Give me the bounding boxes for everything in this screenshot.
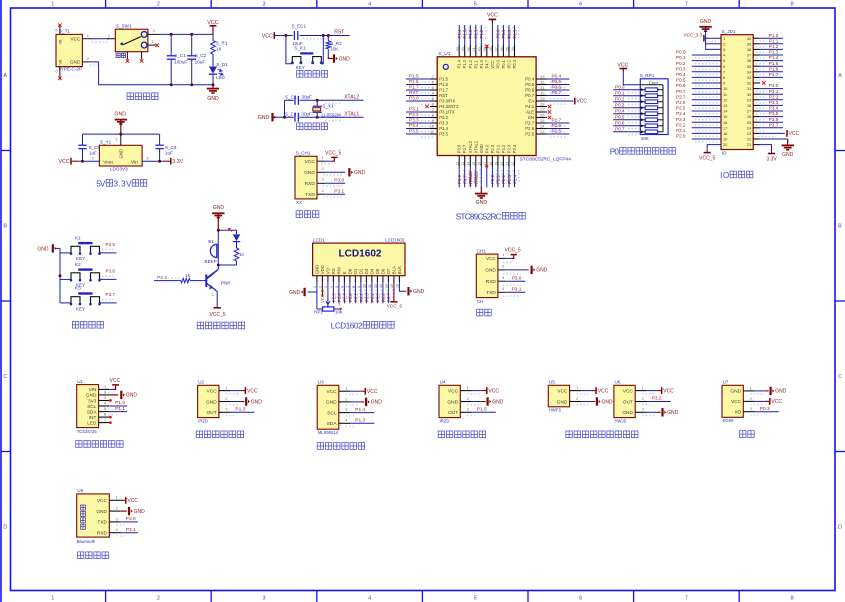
pin U1 bottom 22 (P2.4) bbox=[511, 156, 519, 188]
svg-text:IRZD: IRZD bbox=[198, 418, 208, 423]
svg-text:P3.6: P3.6 bbox=[457, 174, 462, 184]
svg-text:6: 6 bbox=[55, 70, 57, 74]
svg-text:37: 37 bbox=[494, 47, 498, 51]
pin CH1-2 GND serial bbox=[498, 264, 548, 274]
svg-text:D5: D5 bbox=[375, 268, 380, 274]
svg-text:IO: IO bbox=[722, 151, 727, 156]
svg-text:S_EC1: S_EC1 bbox=[292, 24, 307, 29]
caption IRZD module bbox=[438, 431, 485, 438]
svg-text:5V: 5V bbox=[96, 180, 106, 189]
pin U1 right 30 (P0.7) bbox=[536, 90, 569, 99]
caption key circuit bbox=[72, 321, 103, 328]
pin JD1-34 wire P1.6 bbox=[753, 66, 783, 74]
svg-text:3: 3 bbox=[338, 302, 340, 306]
svg-text:P3.3: P3.3 bbox=[439, 121, 448, 126]
svg-text:27: 27 bbox=[747, 109, 751, 114]
svg-text:6: 6 bbox=[579, 2, 582, 8]
caption download port bbox=[296, 211, 319, 218]
pin U1 right 24 (P2.6) bbox=[536, 123, 569, 132]
key S_K1 KEY bbox=[291, 46, 322, 70]
svg-text:1: 1 bbox=[51, 596, 54, 602]
svg-text:P3.4: P3.4 bbox=[409, 123, 419, 128]
pin CH1-1 VCC_5 serial bbox=[498, 248, 521, 263]
pin LCD 14 (D7) bbox=[385, 276, 393, 304]
svg-text:P0.1: P0.1 bbox=[353, 293, 358, 302]
caption crystal circuit bbox=[297, 123, 328, 130]
capacitor S_EC1 10uF (series) bbox=[292, 24, 307, 46]
power port VCC bbox=[207, 20, 218, 34]
svg-text:GND: GND bbox=[602, 399, 614, 405]
svg-text:P3.5: P3.5 bbox=[106, 242, 116, 247]
pin U1 top 36 (P0.1) bbox=[500, 25, 508, 57]
pin U1 left 4 (RST) bbox=[406, 90, 437, 99]
svg-text:GND: GND bbox=[413, 289, 425, 295]
pin U1 left 2 (P1.6) bbox=[406, 79, 437, 88]
svg-text:P2.4: P2.4 bbox=[512, 144, 517, 153]
svg-text:P3.1: P3.1 bbox=[334, 188, 344, 194]
svg-text:P1.2: P1.2 bbox=[468, 59, 473, 68]
svg-text:S_X1: S_X1 bbox=[322, 104, 334, 109]
pin U1 bottom 20 (P2.2) bbox=[500, 156, 508, 188]
pin S_T1 shield bottom (no-connect) bbox=[55, 67, 61, 81]
pin U1-1 VIN bbox=[99, 378, 121, 393]
svg-text:41: 41 bbox=[472, 47, 476, 51]
pin CH1-4 wire P3.1 bbox=[317, 188, 345, 197]
svg-text:32: 32 bbox=[747, 81, 751, 86]
svg-text:GND: GND bbox=[213, 205, 225, 211]
svg-text:P1.3: P1.3 bbox=[462, 59, 467, 68]
svg-text:14: 14 bbox=[467, 162, 471, 166]
svg-text:P0.7: P0.7 bbox=[552, 90, 562, 95]
svg-text:P4.0: P4.0 bbox=[484, 144, 489, 153]
pin U2-1 VCC bbox=[219, 385, 258, 394]
svg-text:P1.1: P1.1 bbox=[115, 406, 125, 412]
svg-text:P1.3: P1.3 bbox=[355, 418, 365, 424]
svg-text:P0.0: P0.0 bbox=[676, 50, 686, 55]
svg-text:28: 28 bbox=[540, 102, 544, 106]
svg-text:6: 6 bbox=[579, 596, 582, 602]
svg-text:D7: D7 bbox=[386, 268, 391, 274]
svg-text:12: 12 bbox=[456, 162, 460, 166]
svg-text:VCC: VCC bbox=[262, 33, 273, 39]
power port VCC on top of MCU bbox=[487, 13, 498, 23]
svg-text:GND: GND bbox=[315, 265, 320, 275]
svg-text:XTAL1: XTAL1 bbox=[473, 140, 478, 153]
pin LCD 15 (BLA) bbox=[390, 276, 394, 302]
pin LCD 12 (D5) bbox=[374, 276, 382, 304]
svg-text:P0.7: P0.7 bbox=[386, 293, 391, 302]
svg-text:GND: GND bbox=[354, 170, 366, 176]
caption reset circuit bbox=[297, 71, 328, 78]
svg-text:S_U1: S_U1 bbox=[438, 51, 450, 57]
LCD1602 display block LCD1 bbox=[313, 237, 405, 275]
potentiometer RP1 10K bbox=[314, 301, 343, 314]
svg-text:GND: GND bbox=[479, 144, 484, 153]
svg-text:30pF: 30pF bbox=[301, 94, 312, 99]
power port VCC into Vout bbox=[59, 158, 78, 165]
caption LCD1602 display module bbox=[331, 322, 394, 331]
svg-text:2: 2 bbox=[723, 41, 725, 46]
svg-text:TXD: TXD bbox=[486, 290, 496, 296]
svg-text:P3.2: P3.2 bbox=[652, 396, 662, 402]
svg-text:6: 6 bbox=[55, 29, 57, 33]
svg-text:I/O: I/O bbox=[735, 410, 742, 416]
svg-text:35: 35 bbox=[747, 64, 751, 69]
pin U1-7 LED bbox=[99, 417, 112, 424]
svg-text:K2: K2 bbox=[75, 262, 81, 267]
svg-text:GND: GND bbox=[476, 200, 488, 206]
svg-text:GND: GND bbox=[304, 170, 315, 176]
svg-text:P1.3: P1.3 bbox=[769, 50, 779, 55]
svg-text:P2.5: P2.5 bbox=[331, 293, 336, 302]
capacitor S_C5 1uF bbox=[78, 134, 100, 161]
svg-text:10K: 10K bbox=[330, 46, 339, 51]
svg-text:P0.5: P0.5 bbox=[676, 78, 686, 83]
svg-text:11.0592M: 11.0592M bbox=[321, 113, 341, 118]
svg-text:18: 18 bbox=[723, 131, 727, 136]
resistor RP1 element 6 with P0.5 wire bbox=[613, 114, 663, 122]
module U2 (IRZD) body bbox=[198, 380, 219, 424]
svg-text:23: 23 bbox=[540, 130, 544, 134]
capacitor S_C3 30pF bbox=[285, 94, 312, 104]
wire crystal top XTAL2 bbox=[285, 99, 364, 102]
svg-text:7: 7 bbox=[432, 108, 434, 112]
svg-text:VDD: VDD bbox=[320, 265, 325, 274]
svg-text:3: 3 bbox=[432, 86, 434, 90]
svg-text:P2.7: P2.7 bbox=[676, 94, 686, 99]
power port VCC at EA pin bbox=[575, 98, 588, 105]
svg-text:LCD1: LCD1 bbox=[313, 237, 325, 242]
svg-text:P0.1: P0.1 bbox=[501, 29, 506, 39]
svg-text:S_C2: S_C2 bbox=[195, 53, 207, 58]
svg-text:P4.3/INT2: P4.3/INT2 bbox=[439, 104, 459, 109]
svg-text:P1.0: P1.0 bbox=[115, 400, 125, 406]
pin U1 left 11 (P3.5) bbox=[406, 128, 437, 137]
pin U8-1 VCC bbox=[109, 495, 138, 504]
svg-text:10K: 10K bbox=[335, 310, 343, 315]
pin JD1-37 wire P1.3 bbox=[753, 50, 783, 58]
svg-text:P0.6: P0.6 bbox=[615, 120, 625, 125]
svg-text:K3: K3 bbox=[75, 286, 81, 291]
wire VCC to Com pin of RP1 bbox=[623, 72, 640, 85]
svg-text:4: 4 bbox=[368, 2, 371, 8]
svg-text:P3.2: P3.2 bbox=[439, 115, 448, 120]
pin LDO GND up bbox=[115, 134, 121, 145]
wire crystal bottom XTAL1 bbox=[273, 116, 364, 119]
svg-text:KEY: KEY bbox=[76, 306, 85, 311]
svg-text:P3.0: P3.0 bbox=[409, 95, 419, 100]
svg-text:P2.5: P2.5 bbox=[525, 132, 534, 137]
svg-text:P2.4: P2.4 bbox=[512, 174, 517, 184]
svg-text:VB: VB bbox=[59, 59, 63, 65]
wire VCC to Vout pin bbox=[78, 155, 99, 162]
caption MLX90614 module bbox=[317, 443, 364, 450]
svg-text:RXD: RXD bbox=[486, 279, 497, 285]
buzzer B1 BEEP bbox=[205, 239, 217, 264]
svg-text:P2.1: P2.1 bbox=[496, 174, 501, 184]
svg-text:P1.0: P1.0 bbox=[479, 29, 484, 39]
svg-text:X2: X2 bbox=[296, 200, 302, 205]
resistor 1K at base bbox=[154, 273, 206, 283]
power port VCC_5 at LCD BLA bbox=[387, 302, 403, 310]
pin JD1-25 wire P3.6 bbox=[753, 117, 783, 125]
svg-text:P3.1: P3.1 bbox=[409, 106, 419, 111]
svg-text:19: 19 bbox=[494, 162, 498, 166]
svg-text:P3.1: P3.1 bbox=[126, 527, 136, 533]
pin JD1-39 wire P1.1 bbox=[753, 38, 783, 46]
pin JD1-11 wire P0.7 bbox=[676, 89, 721, 97]
svg-text:29: 29 bbox=[747, 97, 751, 102]
svg-text:P1.2: P1.2 bbox=[769, 44, 779, 49]
svg-text:23: 23 bbox=[747, 131, 751, 136]
resistor RP1 element 8 with P0.7 wire bbox=[613, 126, 663, 134]
svg-text:P0.4: P0.4 bbox=[552, 73, 562, 78]
pin U1 bottom 13 (P3.7) bbox=[461, 156, 469, 188]
svg-text:33: 33 bbox=[747, 75, 751, 80]
svg-text:P3.5: P3.5 bbox=[439, 132, 448, 137]
pin SW1-1 (no-connect) bbox=[148, 39, 159, 47]
svg-text:30: 30 bbox=[540, 91, 544, 95]
caption STC89C52RC main chip bbox=[456, 212, 526, 221]
pin JD1-40 wire P1.0 bbox=[753, 33, 783, 41]
svg-text:SG90: SG90 bbox=[723, 418, 734, 423]
svg-text:31: 31 bbox=[540, 86, 544, 90]
svg-text:44: 44 bbox=[456, 47, 460, 51]
pin LCD 9 (D2) bbox=[357, 276, 365, 304]
svg-text:D3: D3 bbox=[364, 268, 369, 274]
svg-text:TXD: TXD bbox=[97, 520, 107, 526]
power ground GND crystal bbox=[258, 113, 276, 121]
pin SW1 bottom pads (no-connect) bbox=[126, 52, 144, 63]
svg-text:B1: B1 bbox=[208, 239, 214, 244]
svg-text:26: 26 bbox=[747, 114, 751, 119]
svg-text:LCD1602: LCD1602 bbox=[339, 248, 383, 259]
svg-text:6: 6 bbox=[432, 102, 434, 106]
svg-text:GND: GND bbox=[37, 246, 49, 252]
svg-text:D: D bbox=[3, 525, 7, 531]
svg-text:3V3: 3V3 bbox=[88, 398, 97, 403]
svg-text:P3.7: P3.7 bbox=[106, 292, 116, 297]
svg-text:S_CH1: S_CH1 bbox=[296, 150, 311, 155]
caption dianyuan-dianlu power circuit bbox=[127, 93, 158, 100]
pin U1 top 38 (VCC) bbox=[489, 23, 493, 57]
svg-text:P1.1: P1.1 bbox=[473, 59, 478, 68]
svg-text:5: 5 bbox=[474, 2, 477, 8]
wire key trunk bbox=[55, 248, 62, 303]
module U8 Bluetooth body bbox=[77, 488, 110, 544]
svg-text:P1.5: P1.5 bbox=[769, 61, 779, 66]
pin JD1-19 wire P2.0 bbox=[676, 134, 721, 142]
svg-text:P3.3: P3.3 bbox=[769, 100, 779, 105]
module U6 (HWJS) body bbox=[614, 380, 635, 424]
module U5 (HWFS) body bbox=[548, 380, 569, 413]
svg-text:P0.5: P0.5 bbox=[525, 82, 534, 87]
pin U7-3 I/O bbox=[743, 406, 779, 415]
svg-text:GND: GND bbox=[206, 399, 217, 405]
module U4 (IRZD) body bbox=[439, 380, 460, 424]
svg-text:LCD1602: LCD1602 bbox=[385, 237, 405, 242]
svg-text:P1.0: P1.0 bbox=[769, 33, 779, 38]
svg-text:XTAL2: XTAL2 bbox=[468, 140, 473, 153]
svg-text:P2.5: P2.5 bbox=[552, 128, 562, 133]
svg-text:VCC_5: VCC_5 bbox=[699, 156, 715, 162]
svg-text:P0.0: P0.0 bbox=[495, 59, 500, 68]
svg-text:1K: 1K bbox=[239, 252, 244, 257]
svg-text:P0.3: P0.3 bbox=[760, 406, 770, 412]
svg-text:27: 27 bbox=[540, 108, 544, 112]
svg-text:P0.4: P0.4 bbox=[676, 72, 686, 77]
svg-text:P1.4: P1.4 bbox=[355, 407, 365, 413]
svg-text:30pF: 30pF bbox=[301, 111, 312, 116]
power port VCC_5 alarm bbox=[209, 308, 225, 318]
svg-text:P3.1/TX: P3.1/TX bbox=[439, 110, 455, 115]
svg-text:7: 7 bbox=[685, 596, 688, 602]
svg-text:OUT: OUT bbox=[623, 399, 633, 405]
pin U1 right 28 (P4.1) bbox=[536, 102, 551, 108]
svg-text:C: C bbox=[838, 374, 842, 380]
pin JD1-4 wire P0.0 bbox=[676, 50, 721, 58]
pin U1 left 5 (P3.0/RX) bbox=[406, 95, 437, 104]
pin LCD 4 (RS) bbox=[330, 276, 338, 304]
svg-text:GND: GND bbox=[126, 393, 137, 399]
svg-text:BLK: BLK bbox=[397, 266, 402, 274]
svg-text:IRZD: IRZD bbox=[440, 418, 450, 423]
resistor S_R2 10K bbox=[326, 36, 342, 57]
svg-text:GND: GND bbox=[667, 410, 679, 416]
MCU left pin names bbox=[439, 77, 459, 137]
svg-text:P0.4: P0.4 bbox=[525, 77, 534, 82]
svg-text:XTAL2: XTAL2 bbox=[468, 172, 473, 186]
wire right branch to key bbox=[321, 36, 323, 64]
svg-text:XTAL1: XTAL1 bbox=[474, 172, 479, 186]
svg-text:4: 4 bbox=[432, 91, 434, 95]
svg-text:RW: RW bbox=[337, 266, 342, 274]
svg-text:3: 3 bbox=[723, 47, 725, 52]
pin U1 right 29 (EA) bbox=[536, 97, 574, 104]
svg-text:P2.4: P2.4 bbox=[676, 111, 686, 116]
svg-text:P1.2: P1.2 bbox=[235, 407, 245, 413]
pin JD1-15 wire P2.4 bbox=[676, 111, 721, 119]
wire top rail of LDO circuit bbox=[83, 133, 160, 136]
svg-text:LCD1602: LCD1602 bbox=[331, 322, 363, 331]
pin U5-1 VCC bbox=[570, 385, 609, 394]
svg-text:P2.6: P2.6 bbox=[676, 100, 686, 105]
svg-text:P1.6: P1.6 bbox=[439, 82, 448, 87]
capacitor S_C6 1uF bbox=[155, 134, 176, 161]
power port VCC right of JD1 bbox=[787, 130, 800, 137]
svg-text:7: 7 bbox=[685, 2, 688, 8]
svg-text:D6: D6 bbox=[381, 268, 386, 274]
wire alarm top node bbox=[217, 229, 237, 265]
wire VCC top rail bbox=[158, 33, 213, 36]
svg-text:P3.0: P3.0 bbox=[334, 177, 344, 183]
pin U1 left 1 (P1.5) bbox=[406, 73, 437, 82]
svg-text:VCC: VCC bbox=[247, 388, 258, 394]
svg-text:U4: U4 bbox=[440, 380, 446, 385]
svg-text:STC89C52RC_LQFP44: STC89C52RC_LQFP44 bbox=[520, 157, 572, 163]
svg-text:43: 43 bbox=[461, 47, 465, 51]
svg-text:7: 7 bbox=[723, 69, 725, 74]
pin U1 top 39 (P4.7) bbox=[483, 45, 488, 57]
svg-text:RST: RST bbox=[439, 93, 448, 98]
svg-text:P3.6: P3.6 bbox=[457, 144, 462, 153]
svg-text:VCC: VCC bbox=[448, 388, 459, 394]
svg-text:1: 1 bbox=[432, 75, 434, 79]
svg-text:GND: GND bbox=[775, 389, 787, 395]
pin JD1-22 wire to GND bbox=[753, 138, 788, 140]
pin JD1-27 wire P3.4 bbox=[753, 106, 783, 114]
svg-text:25: 25 bbox=[540, 119, 544, 123]
svg-text:P0.7: P0.7 bbox=[676, 89, 686, 94]
svg-text:1uF: 1uF bbox=[165, 151, 173, 156]
pin LCD 1 (GND) bbox=[313, 276, 317, 309]
svg-text:13: 13 bbox=[461, 162, 465, 166]
power ground GND alarm bbox=[212, 205, 224, 230]
svg-text:RST: RST bbox=[334, 30, 344, 36]
svg-text:VCC_5: VCC_5 bbox=[325, 150, 341, 156]
svg-text:S_JD1: S_JD1 bbox=[722, 29, 736, 34]
pin U8-4 RXD bbox=[109, 527, 138, 536]
pin U7-1 GND bbox=[743, 385, 786, 395]
caption SG90 module bbox=[740, 431, 755, 438]
svg-text:D1: D1 bbox=[353, 268, 358, 274]
svg-text:1K: 1K bbox=[185, 273, 192, 278]
svg-text:P2.3: P2.3 bbox=[676, 117, 686, 122]
svg-text:2: 2 bbox=[432, 80, 434, 84]
svg-text:6: 6 bbox=[723, 64, 725, 69]
pin U1 left 10 (P3.4) bbox=[406, 123, 437, 132]
pin U1 top 37 (P0.0) bbox=[494, 25, 502, 57]
svg-text:P0.6: P0.6 bbox=[676, 83, 686, 88]
svg-text:VCC: VCC bbox=[576, 99, 587, 105]
svg-text:P0.0: P0.0 bbox=[615, 84, 625, 89]
pin U3-4 SDA bbox=[339, 418, 375, 427]
svg-text:S_K1: S_K1 bbox=[294, 46, 306, 51]
svg-text:S_C4: S_C4 bbox=[285, 111, 297, 116]
svg-text:GND: GND bbox=[485, 268, 496, 274]
svg-text:P1.2: P1.2 bbox=[468, 29, 473, 39]
svg-text:5: 5 bbox=[723, 58, 725, 63]
svg-text:P3.1: P3.1 bbox=[769, 89, 779, 94]
svg-text:1: 1 bbox=[723, 36, 725, 41]
pin JD1-18 wire P2.1 bbox=[676, 128, 721, 136]
svg-text:P1.5: P1.5 bbox=[409, 73, 419, 78]
pin LCD 13 (D6) bbox=[379, 276, 387, 304]
svg-text:S_C3: S_C3 bbox=[285, 94, 297, 99]
power ground GND right of LCD bbox=[409, 287, 425, 295]
connector CH1 serial bbox=[476, 248, 498, 304]
svg-text:8: 8 bbox=[432, 113, 434, 117]
svg-text:VCC_5: VCC_5 bbox=[387, 304, 403, 310]
svg-text:VIN: VIN bbox=[89, 387, 97, 392]
pin U1 left 8 (P3.2) bbox=[406, 112, 437, 121]
pin U1 top 41 (P1.1) bbox=[472, 25, 480, 57]
svg-text:10: 10 bbox=[430, 124, 434, 128]
svg-text:SCL: SCL bbox=[87, 404, 97, 409]
wire Vin to 3.3V bbox=[142, 155, 171, 162]
svg-text:P2.0: P2.0 bbox=[676, 134, 686, 139]
pin U1 top 34 (P0.3) bbox=[511, 25, 519, 57]
pin CH1-2 GND wire bbox=[317, 166, 345, 175]
wire VCC to cap S_EC1 bbox=[274, 34, 292, 37]
svg-text:GND: GND bbox=[326, 400, 337, 406]
svg-text:P0.7: P0.7 bbox=[615, 126, 625, 131]
svg-text:D: D bbox=[838, 525, 842, 531]
pin JD1-23 wire to VCC bbox=[753, 133, 785, 136]
svg-text:S_C1: S_C1 bbox=[174, 53, 186, 58]
svg-text:TYPE-C-2P: TYPE-C-2P bbox=[58, 67, 82, 72]
svg-text:P1.0: P1.0 bbox=[479, 59, 484, 68]
